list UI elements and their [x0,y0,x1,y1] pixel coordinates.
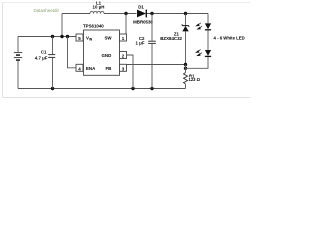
wire R1 top lead [185,65,187,73]
zener Z1 BZX84C32 [160,24,189,41]
wire bottom rail [18,88,186,90]
pin 5 [76,34,83,41]
resistor R1 [184,73,201,84]
wire C1 top lead [52,37,54,55]
node: SW junction [124,12,127,15]
wire FB feedback [127,64,186,66]
node: C1 bottom junction [51,87,54,90]
wire L1 left riser [61,14,63,37]
svg-text:BZX84C32: BZX84C32 [160,36,182,41]
wire top rail right segment [147,13,208,15]
wire LED mid lead [207,30,209,50]
svg-text:4 - 6 White LED: 4 - 6 White LED [214,36,245,41]
frame (decorative) [3,3,251,98]
diode D1 MBR0530 [133,5,153,25]
node: LED return junction [184,67,187,70]
pin 3 [120,64,127,71]
capacitor C1 [35,50,55,61]
wire GND drop [127,55,134,89]
LED D2 [195,23,211,30]
node: zener junction [184,12,187,15]
svg-text:SW: SW [105,35,113,40]
wire VIN rail [18,36,76,38]
svg-text:D1: D1 [138,5,144,10]
wire zener top lead [185,14,187,26]
svg-text:GND: GND [102,53,112,58]
wire SW riser [125,14,127,35]
svg-text:C1: C1 [41,50,47,55]
wire R1 bottom lead [185,84,187,89]
svg-text:1 μF: 1 μF [135,40,144,45]
pin 1 [120,34,127,41]
svg-text:FB: FB [106,66,112,71]
node: L1 junction [60,35,63,38]
inductor L1 [90,0,104,13]
node: GND bottom junction [131,87,134,90]
wire battery bottom lead [17,61,19,89]
node: C2 junction [150,12,153,15]
wire battery top lead [17,37,19,53]
wire ENA lead [68,37,77,68]
pin 2 [120,52,127,59]
wire zener bottom lead [185,31,187,64]
pin 4 [76,64,83,71]
svg-text:MBR0530: MBR0530 [133,20,153,25]
LED D3 [195,50,211,57]
wire C2 bottom lead [151,44,153,89]
wire LED chain top lead [207,14,209,24]
wire C2 top lead [151,14,153,41]
svg-text:123 Ω: 123 Ω [189,77,201,82]
wire C1 bottom lead [52,58,54,89]
svg-text:Datasheetdir: Datasheetdir [34,8,60,13]
svg-text:10 μH: 10 μH [93,4,105,9]
node: C1 junction [51,35,54,38]
svg-text:TPS61040: TPS61040 [83,24,104,29]
wire LED return [186,57,209,68]
battery [14,53,22,61]
node: C2 bottom junction [150,87,153,90]
wire top rail middle segment [104,13,137,15]
capacitor C2 [135,36,155,45]
wire top rail left segment [62,13,90,15]
node: FB junction [184,63,187,66]
svg-text:4.7 μF: 4.7 μF [35,55,48,60]
svg-text:ENA: ENA [86,66,96,71]
op-amp/IC U1 TPS61040 body [83,24,120,76]
node: ENA junction [66,35,69,38]
